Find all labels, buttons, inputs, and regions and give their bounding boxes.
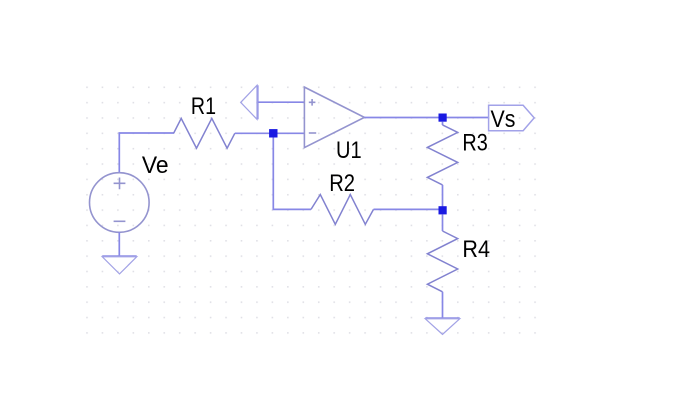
op-amp U1 bbox=[304, 87, 364, 148]
svg-text:R4: R4 bbox=[462, 236, 490, 263]
resistor R1 bbox=[174, 118, 235, 148]
svg-text:Vs: Vs bbox=[491, 106, 516, 133]
wire junction down to feedback net bbox=[273, 138, 311, 210]
junction node feedback (R3/R4/R2) bbox=[439, 206, 447, 214]
wire R4 to ground bbox=[442, 292, 444, 318]
junction node at op-amp output bbox=[439, 114, 447, 122]
resistor R4 bbox=[427, 231, 457, 292]
ground GND1 (below Ve) bbox=[102, 256, 136, 274]
plus terminal mark bbox=[114, 178, 126, 190]
wire from Ve top terminal up to main net corner bbox=[119, 133, 174, 173]
svg-text:R1: R1 bbox=[191, 93, 216, 120]
wire from Ve bottom terminal to ground bbox=[118, 232, 120, 256]
resistor R2 bbox=[311, 195, 374, 225]
wire output junction down to R3 bbox=[442, 122, 444, 126]
minus terminal mark bbox=[114, 220, 126, 222]
wire R1 to op-amp inverting input (through node) bbox=[235, 132, 305, 134]
junction node at inverting input bbox=[269, 129, 277, 137]
wire feedback junction down to R4 bbox=[442, 214, 444, 231]
non-inverting input + mark bbox=[309, 99, 316, 106]
resistor R3 bbox=[427, 125, 457, 185]
wire ground to non-inverting input bbox=[259, 101, 305, 103]
svg-text:R2: R2 bbox=[329, 170, 355, 197]
svg-text:Ve: Ve bbox=[142, 152, 169, 179]
ground GND2 (below R4) bbox=[425, 318, 459, 334]
ground at non-inverting input (rotated) bbox=[241, 85, 258, 119]
svg-text:R3: R3 bbox=[462, 129, 487, 156]
wire R3 to feedback junction bbox=[442, 185, 444, 210]
inverting input - mark bbox=[309, 132, 316, 134]
svg-text:U1: U1 bbox=[336, 137, 362, 164]
port Vs bbox=[489, 105, 535, 131]
voltage source Ve bbox=[90, 173, 150, 233]
wire R2 to feedback junction bbox=[374, 208, 443, 210]
wire op-amp output to port Vs (through node) bbox=[364, 117, 488, 119]
